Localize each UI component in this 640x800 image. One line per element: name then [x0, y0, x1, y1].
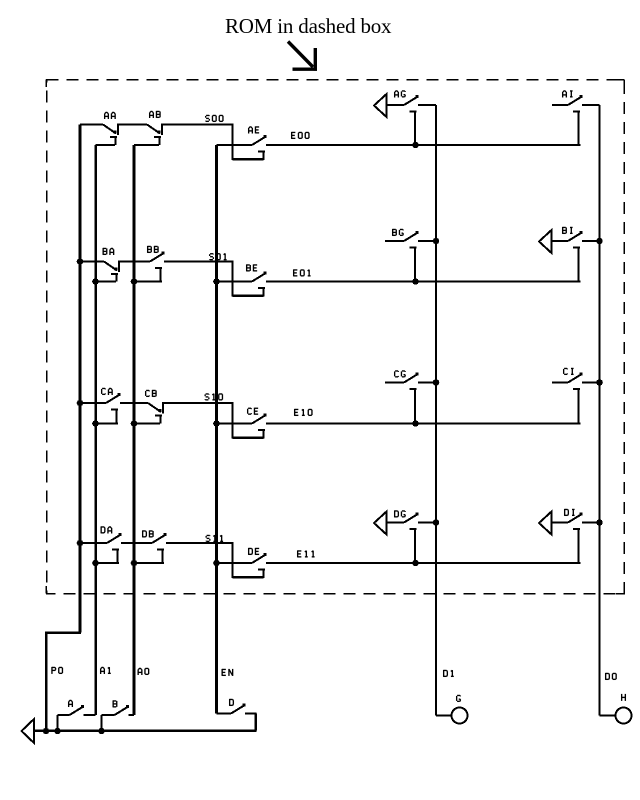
junction: P0 column to DA input: [77, 540, 84, 547]
buffer driving BI: [539, 230, 552, 253]
input buffer triangle at bottom left: [22, 719, 35, 743]
switch DB: [121, 530, 167, 563]
switch AB: [118, 111, 162, 145]
switch BB: [119, 246, 165, 282]
connector H: [600, 694, 632, 724]
junction: EN column to BE input: [213, 278, 220, 285]
junction: CI output to D0 column: [596, 379, 603, 386]
annotation arrow pointing to ROM box: [288, 42, 317, 71]
switch CI: [552, 368, 600, 423]
switch DA: [80, 526, 122, 563]
switch AE: [217, 126, 267, 151]
label A1: [101, 667, 111, 674]
junction: switch B input from bus: [98, 728, 105, 735]
wire D0 column: [599, 105, 601, 716]
switch AI: [552, 91, 600, 145]
label D0: [606, 673, 617, 680]
junction: BI output to D0 column: [596, 238, 603, 245]
wire: A0 column to BB gate: [131, 278, 162, 285]
wire: A0 column to CB gate: [131, 420, 160, 427]
junction: CG output to D1 column: [433, 379, 440, 386]
wire S10 (row select net): [163, 394, 264, 439]
svg-text:ROM in dashed box: ROM in dashed box: [225, 14, 392, 38]
wire P0 column (row feed, jogs left at bottom): [46, 125, 81, 732]
wire: A1 column to DA gate: [92, 560, 119, 567]
switch BA: [80, 248, 119, 282]
wire EN column: [215, 145, 218, 714]
wire: A1 column to BA gate: [92, 278, 116, 285]
switch AG: [387, 91, 437, 145]
switch D: [217, 699, 257, 714]
junction: switch A input from bus: [54, 728, 61, 735]
switch DG: [387, 510, 437, 563]
buffer driving DG: [374, 512, 387, 535]
wire E11 (row output net): [266, 550, 581, 563]
wire E01 (row output net): [266, 269, 581, 281]
label P0: [52, 667, 63, 674]
wire D1 column: [435, 105, 437, 716]
junction: CG gate to E10: [412, 420, 419, 427]
junction: DG gate to E11: [412, 560, 419, 567]
label A0: [138, 668, 149, 675]
junction: P0 column to BA input: [77, 258, 84, 265]
label D1: [444, 670, 454, 677]
wire A0 column: [133, 145, 136, 715]
bus wire along bottom: [34, 714, 257, 731]
switch DE: [217, 548, 267, 570]
switch CG: [385, 371, 436, 424]
switch A: [58, 700, 96, 731]
junction: AG gate to E00: [412, 142, 419, 149]
wire S01 (row select net): [164, 253, 264, 296]
junction: DG output to D1 column: [433, 519, 440, 526]
buffer driving AG: [374, 94, 387, 117]
label EN: [222, 669, 233, 676]
buffer driving DI: [539, 512, 552, 535]
switch CA: [80, 388, 121, 423]
wire E00 (row output net): [266, 132, 581, 145]
wire: A0 column to AB gate: [134, 144, 159, 146]
connector G: [436, 695, 468, 723]
wire A1 column: [94, 145, 97, 715]
junction: BG gate to E01: [412, 278, 419, 285]
wire S00 (row select net): [162, 115, 264, 160]
title: ROM in dashed box: [225, 14, 392, 38]
switch CE: [217, 408, 267, 430]
switch BI: [552, 227, 600, 282]
wire: A0 column to DB gate: [131, 560, 164, 567]
wire S11 (row select net): [166, 535, 264, 578]
wire: A1 column to CA gate: [92, 420, 118, 427]
switch B: [102, 700, 135, 731]
switch BG: [385, 229, 436, 282]
junction: BG output to D1 column: [433, 238, 440, 245]
junction: DI output to D0 column: [596, 519, 603, 526]
switch DI: [552, 509, 600, 563]
junction: EN column to DE input: [213, 560, 220, 567]
wire E10 (row output net): [266, 409, 581, 424]
switch CB: [120, 390, 163, 424]
wire: A1 column to AA gate: [96, 144, 116, 146]
junction: P0 column to CA input: [77, 400, 84, 407]
junction: EN column to CE input: [213, 420, 220, 427]
switch AA: [80, 112, 118, 145]
ROM dashed box outline: [46, 80, 624, 594]
junction: P0 to bus: [43, 728, 50, 735]
switch BE: [217, 264, 267, 288]
